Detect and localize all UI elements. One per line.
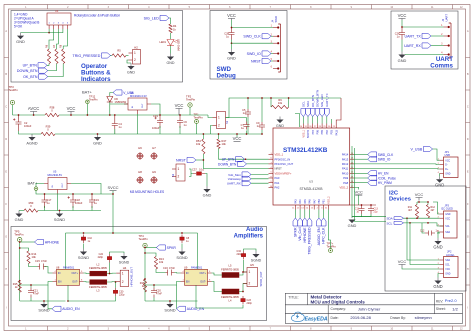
wire tp7 [328, 210, 330, 249]
diode D6 [107, 97, 127, 105]
junction r15 [19, 280, 21, 282]
svg-text:VCC: VCC [354, 190, 363, 195]
svg-text:STM32L412KB: STM32L412KB [283, 147, 328, 154]
svg-text:GND: GND [16, 39, 25, 44]
wire swd_clk mcu [354, 154, 367, 156]
svg-text:R8: R8 [60, 44, 63, 48]
svg-text:100uF: 100uF [75, 201, 83, 205]
svg-text:SDA: SDA [445, 231, 450, 234]
svg-text:1: 1 [122, 271, 124, 275]
wire c4 bot [114, 129, 116, 134]
title text MCU and Digital Controls [311, 300, 366, 305]
svg-text:OK_BTN: OK_BTN [311, 95, 315, 107]
wire c34 top sgnd [244, 249, 257, 251]
svg-text:D: D [467, 138, 469, 141]
svg-text:stimeymn: stimeymn [415, 315, 432, 320]
wire audio_en right [176, 285, 178, 309]
ground H2 [127, 63, 135, 75]
svg-text:GND: GND [445, 274, 450, 276]
wire rail2 [32, 133, 41, 135]
svg-text:0.1u: 0.1u [199, 168, 205, 172]
wire R5 to H2 [126, 55, 129, 57]
svg-text:PA2: PA2 [275, 186, 280, 190]
wire bat2 [36, 184, 44, 187]
wire c9 bot [261, 130, 263, 134]
ground SGND left [38, 301, 49, 313]
svg-text:Devices: Devices [389, 197, 411, 203]
title block grid [285, 293, 462, 323]
junction sda r11 [416, 217, 418, 219]
wire jp3 vcc [433, 202, 440, 214]
svg-text:TITLE:: TITLE: [288, 296, 298, 300]
junction sgnd row2 [59, 210, 61, 212]
wire encoder pin1 to ground [21, 29, 50, 33]
svg-text:1: 1 [218, 116, 220, 120]
svg-text:PAM8301: PAM8301 [191, 265, 203, 269]
wire u9 l5 [212, 273, 223, 275]
svg-text:VSS_2: VSS_2 [327, 196, 330, 204]
rotary encoder U4 [47, 9, 71, 29]
junction bat [87, 114, 89, 116]
svg-text:BOOT0: BOOT0 [307, 129, 310, 138]
wire c33 bot [159, 126, 161, 134]
junction encoder gnd [48, 32, 50, 34]
wire l5 h5 [239, 272, 247, 275]
label J4 SWD [272, 16, 279, 23]
connector J3 UART [441, 23, 451, 58]
svg-text:TRIG_PRESSED: TRIG_PRESSED [308, 227, 312, 255]
svg-text:H7: H7 [152, 146, 156, 150]
wire c16 u9 [175, 272, 181, 275]
wire s1 vcc [208, 115, 213, 118]
svg-text:PAM8301: PAM8301 [63, 265, 75, 269]
flag V_USB [113, 90, 134, 95]
title text Metal Detector [311, 295, 342, 300]
EasyEDA logo [292, 312, 328, 323]
ferrite L3 [89, 280, 107, 293]
capacitor C15 [35, 259, 47, 270]
flag SWD_IO [247, 51, 271, 56]
svg-text:Comms: Comms [430, 63, 453, 70]
svg-text:FERRITE-0805: FERRITE-0805 [89, 266, 107, 270]
wire swd gnd row [232, 40, 274, 44]
wire reg gnd [137, 114, 139, 134]
wire jp2 gnd [438, 274, 440, 278]
wire c12 gnd [437, 232, 440, 234]
ground SGND c22 [119, 253, 130, 265]
junction upbtn [245, 158, 247, 160]
wire c10 sgnd [83, 244, 85, 249]
capacitor C16 [163, 266, 175, 276]
wire c23 bot [196, 301, 243, 308]
wire svcc rail [45, 193, 114, 195]
connector H5 speaker [243, 263, 263, 287]
capacitor C6 [177, 115, 187, 128]
svg-text:Amplifiers: Amplifiers [234, 234, 264, 240]
svg-text:VCC: VCC [398, 13, 407, 18]
svg-text:GND: GND [348, 223, 357, 228]
wire c37 gnd [205, 174, 207, 187]
svg-text:SVCC: SVCC [107, 185, 118, 190]
capacitor C4 [112, 115, 123, 134]
svg-text:H4: H4 [123, 266, 127, 270]
svg-text:100uF: 100uF [152, 126, 160, 130]
svg-text:PF1/OSC_OUT: PF1/OSC_OUT [275, 162, 294, 166]
svg-text:PB6: PB6 [317, 129, 320, 134]
wire rail1 left [13, 114, 46, 116]
capacitor C33 [152, 114, 163, 130]
wire c20 top [145, 285, 154, 288]
svg-text:PA7: PA7 [313, 199, 316, 204]
wire swd vcc stem [231, 20, 233, 28]
svg-text:U5: U5 [53, 170, 57, 174]
svg-text:OUT+: OUT+ [200, 272, 207, 275]
svg-text:VDDA/VREF+: VDDA/VREF+ [275, 171, 292, 175]
connector JP3 I2C OLED [438, 204, 457, 239]
wire vss1 red [336, 98, 341, 124]
testpin TP7 [327, 242, 337, 253]
wire NRST swd [271, 60, 273, 62]
svg-text:RotaryEncoder &nPush Button: RotaryEncoder &nPush Button [74, 14, 120, 18]
svg-text:GND: GND [398, 58, 407, 63]
junction spkr [144, 247, 146, 249]
wire pin3 to R7 [57, 29, 59, 49]
flag SDA [387, 217, 404, 221]
title block TITLE text [288, 296, 298, 300]
svg-text:SWD_CLK: SWD_CLK [378, 153, 394, 157]
flag SWD_IO mcu [368, 157, 391, 162]
svg-text:SPKR: SPKR [167, 246, 177, 250]
mounting hole H6 [136, 146, 144, 160]
wire r14 c15 [29, 264, 38, 267]
svg-text:R4: R4 [173, 24, 177, 28]
svg-text:VDD_1: VDD_1 [275, 153, 284, 157]
svg-text:I2C OLED: I2C OLED [441, 207, 453, 211]
capacitor C21 [28, 288, 39, 298]
junction c18 [72, 193, 74, 195]
svg-text:GND: GND [203, 193, 212, 198]
flag SPKR [156, 245, 176, 250]
testpin TP4 [139, 234, 149, 248]
wire r14 top [20, 248, 29, 251]
junction c11 [361, 204, 372, 206]
wire c34 bot [243, 260, 245, 272]
label BAT+ [82, 90, 92, 95]
svg-text:2: 2 [249, 282, 251, 286]
connector S2 [171, 164, 185, 181]
ground AGND [26, 134, 37, 146]
wire r13 top [145, 253, 156, 257]
wire en wire [31, 282, 53, 286]
svg-text:S2: S2 [171, 173, 175, 177]
svg-text:PA14: PA14 [342, 153, 349, 157]
svg-text:EN: EN [186, 281, 190, 284]
ground swd [227, 49, 236, 61]
wire en wire right [154, 282, 181, 286]
svg-text:PF0/OSC_IN: PF0/OSC_IN [275, 157, 291, 161]
capacitor C8 audio [180, 235, 190, 244]
wire tp2 down [189, 107, 191, 115]
ground SGND right [164, 301, 175, 313]
wire uart vcc row [402, 26, 444, 28]
junction r54 [203, 133, 205, 135]
ground JP2 [433, 278, 442, 290]
wire r13 c16 [156, 269, 166, 273]
wire pin5 to R8 [63, 29, 67, 49]
svg-text:U4: U4 [55, 9, 59, 13]
title block Company [331, 306, 382, 311]
junction c10 audio [83, 232, 85, 234]
svg-text:PA8: PA8 [343, 181, 348, 185]
junction c4 [114, 114, 116, 116]
testpin TP1 [194, 113, 204, 124]
svg-text:H: H [5, 268, 7, 271]
wire uartrx mid [251, 182, 269, 184]
flag AUDIO_EN right [177, 306, 205, 311]
wire c20 bot [153, 298, 155, 302]
svg-text:VDD_2: VDD_2 [340, 186, 349, 190]
note text encoder pinout [14, 13, 39, 29]
svg-text:5=OK: 5=OK [14, 25, 23, 29]
wire c5 bot [247, 117, 249, 134]
power SVCC [107, 185, 118, 191]
junction r9 right [288, 97, 290, 99]
resistor R5 [112, 49, 126, 58]
wire hv_en [354, 172, 367, 174]
regulator U5 MIC2940-5V [44, 170, 71, 194]
wire red rail mcu [350, 204, 376, 206]
junction c22 [109, 273, 111, 275]
capacitor C2 bulk [13, 115, 32, 131]
wire UP_BTN [47, 64, 49, 66]
svg-text:VCC: VCC [398, 259, 407, 264]
capacitor C28 swd [224, 28, 234, 40]
flags below MCU [293, 218, 326, 255]
svg-text:Date:: Date: [331, 316, 339, 320]
wire top left L [295, 114, 300, 127]
wire c7 top [246, 118, 248, 122]
capacitor C9 [256, 121, 265, 130]
svg-text:PB3: PB3 [331, 129, 334, 134]
svg-text:OUT-: OUT- [72, 281, 78, 284]
svg-text:SGND: SGND [119, 261, 130, 265]
junction c17 [44, 193, 46, 195]
wire jp2 scl [410, 223, 440, 265]
connector H2 trigger [129, 46, 141, 65]
wire r54 top [202, 134, 204, 139]
wire tp3 down [12, 105, 14, 115]
junction c21 [30, 284, 32, 286]
resistor R59 [24, 201, 38, 212]
wire s1 to c7 [226, 117, 247, 119]
ground JP1 [435, 176, 444, 188]
wire vdc [251, 174, 269, 176]
wire u8 gnd [67, 285, 69, 301]
junction c33 [159, 114, 161, 116]
svg-text:MIC2940-5V: MIC2940-5V [48, 173, 63, 177]
svg-text:10k: 10k [196, 142, 201, 146]
resistor R13 [154, 257, 164, 270]
wire c2 bot [19, 131, 33, 134]
power VCC swd [227, 13, 236, 20]
svg-text:220p: 220p [237, 253, 243, 256]
title block Sheet [436, 306, 459, 311]
svg-text:VCC: VCC [445, 269, 450, 271]
svg-text:Company:: Company: [331, 307, 347, 311]
svg-text:/COIL_Pulse: /COIL_Pulse [378, 176, 396, 180]
svg-text:UART_TX: UART_TX [325, 93, 329, 107]
svg-text:EN: EN [58, 281, 62, 284]
flag TRIG_PRESSED [73, 53, 111, 58]
junction vcc mid [236, 133, 238, 135]
wire swd vcc row [232, 27, 274, 29]
wire R4 to LED1 [170, 33, 172, 39]
wire s1 out [211, 126, 213, 135]
wire rail2b [38, 210, 101, 212]
svg-text:DOWN_BTN: DOWN_BTN [218, 162, 237, 166]
svg-text:SDA: SDA [306, 101, 310, 107]
regulator U6 MIC2940-3.3V [124, 91, 151, 114]
svg-text:GND: GND [15, 217, 24, 222]
wire i2c vcc bar [417, 202, 428, 205]
junction r13 [144, 252, 146, 254]
svg-text:HPHONE: HPHONE [45, 240, 60, 244]
svg-text:SWD: SWD [274, 16, 278, 23]
junction c30 [115, 281, 117, 283]
wire u9 vdd [197, 233, 199, 269]
wire c22 top sgnd [110, 252, 125, 254]
wire bat2 down [36, 190, 45, 194]
junction avcc [33, 114, 35, 116]
wire jp2 vcc [402, 268, 440, 270]
svg-text:PB0: PB0 [318, 199, 321, 204]
svg-text:LED1: LED1 [160, 40, 167, 44]
wire reg out [151, 104, 160, 115]
svg-text:TRIG_PRESSED: TRIG_PRESSED [73, 54, 101, 58]
capacitor C20 [151, 288, 162, 298]
svg-text:SCL: SCL [445, 226, 450, 228]
section box: UART Comms [391, 11, 458, 69]
svg-text:TestPin: TestPin [327, 245, 337, 249]
wire svcc to audio [112, 191, 114, 233]
svg-text:USB: USB [445, 153, 451, 157]
junction r14 [19, 247, 21, 249]
IC U9 PAM8301 [181, 265, 212, 285]
svg-text:OUT-: OUT- [200, 281, 206, 284]
svg-text:H9: H9 [152, 170, 156, 174]
svg-text:PB1: PB1 [323, 199, 326, 204]
resistor R47 [217, 139, 227, 149]
wire vusb diode [110, 93, 113, 97]
svg-text:D: D [5, 138, 7, 141]
svg-text:SCL: SCL [445, 265, 450, 267]
wire nrst flag [196, 159, 203, 161]
wire r9 left [270, 98, 272, 107]
wire jp3 gnd [438, 232, 440, 238]
svg-text:Indicators: Indicators [81, 76, 111, 83]
flag Vdcswtop [228, 176, 251, 181]
svg-text:SWD_CLK: SWD_CLK [243, 35, 261, 39]
capacitor C37 [192, 168, 205, 176]
wire c7 bot [246, 131, 248, 135]
wire sda row [352, 217, 440, 219]
svg-text:Debug: Debug [217, 73, 236, 80]
svg-text:AUDIO_EN: AUDIO_EN [317, 227, 321, 245]
svg-text:TestPin: TestPin [9, 88, 19, 92]
junction r16 [144, 278, 146, 280]
junction scl jp2 [409, 222, 411, 224]
svg-text:SGND: SGND [54, 217, 65, 222]
svg-text:STM32L412KB: STM32L412KB [300, 187, 324, 191]
mounting hole H7 [150, 146, 158, 160]
flag UART_TX [404, 33, 431, 38]
svg-text:Pre2.0: Pre2.0 [445, 298, 458, 303]
svg-text:IN: IN [58, 272, 61, 275]
capacitor C18 [68, 194, 83, 208]
ferrite L5 [221, 264, 239, 278]
capacitor C7 [241, 122, 250, 131]
junction svcc audio [112, 193, 114, 195]
wire tp5 down [19, 242, 21, 301]
wire r47 bottom [219, 149, 269, 160]
svg-text:IN: IN [186, 272, 189, 275]
wire l4 h5 [239, 284, 247, 292]
wire c15 u8 [45, 267, 53, 274]
svg-text:10k: 10k [32, 255, 37, 259]
svg-text:2: 2 [178, 175, 180, 179]
resistor R7 [53, 44, 58, 63]
svg-text:GND: GND [433, 245, 442, 250]
svg-text:OK_BTN: OK_BTN [23, 75, 38, 79]
svg-text:U9: U9 [184, 265, 188, 269]
wire c6 bot [179, 126, 181, 134]
wire r54 bottom nrst [203, 154, 268, 169]
wire uart cap gnd [401, 40, 403, 52]
wire s2 c37 [189, 169, 193, 174]
junction c2 [18, 114, 20, 116]
wire u8 l2 [84, 272, 90, 275]
svg-text:VCC: VCC [415, 192, 424, 197]
svg-text:GND: GND [445, 174, 450, 176]
wire scl row [355, 222, 444, 227]
svg-text:G: G [467, 235, 469, 238]
svg-text:Vdcswtop: Vdcswtop [228, 177, 241, 181]
wire c12 left [422, 223, 425, 233]
svg-text:1: 1 [134, 51, 136, 55]
svg-text:LED-3MM: LED-3MM [177, 39, 181, 51]
capacitor C22 [98, 253, 112, 263]
wires MCU bottom to flags [295, 210, 323, 219]
svg-text:GND: GND [276, 124, 284, 128]
svg-text:TestPin: TestPin [89, 97, 98, 101]
svg-text:HV_PWM: HV_PWM [378, 181, 392, 185]
wire audio_en left [48, 285, 52, 309]
junction c23 [242, 291, 244, 293]
svg-text:PA1: PA1 [275, 181, 280, 185]
svg-text:H8: H8 [138, 170, 142, 174]
svg-text:C: C [467, 105, 469, 108]
svg-text:C15: C15 [35, 259, 40, 263]
resistor R6 [46, 44, 51, 63]
title block Date [331, 315, 372, 320]
junction sda jp2 [406, 217, 408, 219]
ground SGND c34 [251, 251, 262, 263]
wire LED1 to gnd [170, 46, 172, 54]
svg-text:FERRITE-0805: FERRITE-0805 [221, 268, 239, 272]
svg-text:GND: GND [435, 183, 444, 188]
junction c9 [261, 97, 263, 135]
title I2C Devices [389, 191, 411, 203]
